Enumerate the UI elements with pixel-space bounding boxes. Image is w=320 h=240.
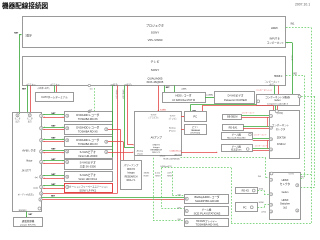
box BluRay recorder SHARP BD-HD100 — [185, 195, 229, 204]
box PC — [185, 112, 207, 122]
svg-text:SHARP BD-HD100: SHARP BD-HD100 — [195, 199, 219, 203]
svg-text:RDC-7.1: RDC-7.1 — [152, 152, 161, 154]
svg-text:(D4): (D4) — [177, 219, 181, 221]
wire dashed HDMI vertical to PS3 — [160, 168, 163, 209]
svg-text:NET: NET — [51, 125, 56, 127]
wire RD-EA1 to selector — [243, 125, 269, 128]
wire Xbox360 to selector — [253, 137, 270, 140]
selector port circle 5 — [40, 160, 43, 163]
box device RD-X5 — [65, 125, 113, 135]
wire component projector green down to Gefen DA — [287, 42, 288, 43]
device RD-X3 port circle — [66, 139, 69, 142]
wire dashed HDMI vertical to HD-XA1 — [152, 158, 155, 221]
svg-text:OUT1: OUT1 — [289, 174, 295, 176]
selector input circle 3 — [270, 138, 273, 141]
wire Gefen to PC (green) — [191, 103, 257, 106]
wire antenna dashed TV to RD-X6 — [93, 88, 96, 112]
device SV-S300 port circle — [66, 161, 69, 164]
device LF-PK1 port circle — [66, 186, 69, 189]
wire RD-SB1M to selector — [242, 114, 270, 117]
box projector SONY VPL-VW60 — [23, 17, 286, 48]
svg-text:(D4): (D4) — [177, 195, 181, 197]
box device SV-S300 — [65, 160, 113, 170]
svg-text:IN1: IN1 — [291, 23, 295, 26]
wire S-video2 TV down to AV amp (red) — [126, 86, 129, 146]
wire S2 video+audio TV to AV amp (red) — [157, 86, 160, 112]
svg-text:(i.LINK): (i.LINK) — [207, 94, 214, 96]
selector port circle 6 — [40, 175, 43, 178]
wire green vertical from projector to selector monitor-out — [18, 35, 21, 114]
svg-text:(5.1ch): (5.1ch) — [155, 173, 161, 175]
wire pair NET selector to device 7 — [43, 184, 65, 187]
box game Nintendo Wii — [222, 145, 253, 152]
device RD-X5 port circle — [66, 127, 69, 130]
wire dashed vertical VA — [303, 76, 306, 179]
wire PC to switcher dashed — [258, 206, 265, 209]
svg-text:NET: NET — [51, 184, 56, 186]
wire VC to switcher out — [301, 186, 316, 189]
wire RD-X5 to switcher dashed — [258, 189, 265, 192]
svg-text:RD-X5: RD-X5 — [242, 190, 250, 193]
svg-text:NET: NET — [51, 174, 56, 176]
RD-X5 right port circle — [105, 128, 108, 131]
switcher circle in3 — [270, 203, 273, 206]
wire switcher right to VA — [301, 177, 305, 180]
svg-text:HDMI: HDMI — [259, 202, 264, 204]
svg-text:Gefen: Gefen — [274, 100, 281, 102]
box D-VHS video Panasonic NV-DHE20 — [215, 92, 255, 104]
switcher circle out right 2 — [296, 209, 299, 212]
svg-text:2007.10.1: 2007.10.1 — [295, 3, 310, 7]
device HR-20000 port circle — [66, 150, 69, 153]
wire Wii to selector — [253, 147, 270, 150]
svg-text:NET: NET — [51, 137, 56, 139]
svg-text:Panasonic NV-DHE20: Panasonic NV-DHE20 — [224, 100, 248, 102]
svg-text:SONY: SONY — [151, 31, 160, 35]
wire pair NET selector to device 3 — [43, 138, 65, 141]
switcher circle out right 1 — [296, 184, 299, 187]
Gefen left edge circle — [257, 100, 260, 103]
selector port circle 3 — [40, 139, 43, 142]
selector input circle 2 — [270, 126, 273, 129]
selector port circle 9 — [39, 198, 42, 201]
svg-text:NET: NET — [51, 149, 56, 151]
svg-text:VPL-VW60: VPL-VW60 — [148, 38, 163, 42]
wire AV amp to power amp (gray) — [133, 155, 136, 160]
selector port circle 8 — [40, 192, 43, 195]
wire iLINK TV to RecPOT — [173, 86, 176, 93]
svg-text:TOSHIBA HD-XA1: TOSHIBA HD-XA1 — [195, 223, 219, 227]
svg-text:BB-5B1M: BB-5B1M — [227, 116, 237, 119]
switcher circle top-left — [270, 172, 273, 175]
svg-text:NET: NET — [51, 113, 56, 115]
wire S-video1 TV down (green) — [111, 86, 114, 158]
svg-text:ONKYO: ONKYO — [152, 145, 160, 147]
box device LF-PK1 — [65, 184, 113, 193]
wire S-video2 TV down to AV amp (green) — [123, 86, 126, 148]
wire dashed vertical right bus VB — [310, 28, 313, 224]
selector port circle 4 — [40, 150, 43, 153]
svg-text:(Piano): (Piano) — [169, 131, 176, 133]
wire pair NET selector to device 1 — [43, 113, 65, 116]
box device RD-X3 — [65, 137, 113, 147]
svg-text:(YDP223): (YDP223) — [190, 133, 200, 135]
box TV SONY QUALIA005 — [23, 57, 286, 86]
box game Xbox360 — [222, 133, 253, 140]
antenna circle top — [88, 84, 90, 86]
wire NET TV to RecPOT — [163, 86, 166, 93]
svg-text:NET: NET — [51, 159, 56, 161]
svg-text:(D4): (D4) — [177, 207, 181, 209]
box device RD-X6 — [65, 112, 113, 122]
wire dashed vertical VC — [313, 97, 316, 188]
wire switcher OUT1 to right bus — [301, 173, 312, 176]
wire analog feed to AV amp (red) — [108, 151, 133, 154]
svg-text:RS232C: RS232C — [19, 210, 27, 212]
RD-X3 right port circle — [105, 140, 108, 143]
box piano YAMAHA — [185, 125, 207, 135]
svg-text:SONY: SONY — [151, 68, 160, 72]
wire red chain selector inputs a — [266, 117, 269, 127]
box RD-X5 HDMI — [236, 188, 258, 194]
box PC bottom — [236, 203, 258, 212]
box power controller prosper SVCTRL — [14, 218, 43, 227]
wire dashed bottom bus — [231, 222, 311, 225]
device HR-VFG1 port circle — [66, 175, 69, 178]
box power amp Integra RESEARCH RDA-7.1 — [121, 161, 142, 190]
antenna circle bottom — [88, 110, 90, 112]
box CATV home terminal — [36, 93, 74, 102]
monitor out circle 2 — [28, 114, 31, 117]
wire Gefen to component selector (red) — [276, 106, 279, 111]
svg-text:i.LINK: i.LINK — [181, 88, 187, 90]
box AV amp ONKYO Integra RDC-7.1 — [135, 112, 182, 156]
svg-text:Victor: Victor — [26, 160, 33, 163]
wire pair NET selector to device 2 — [43, 126, 65, 129]
switcher circle in2 — [270, 193, 273, 196]
svg-text:SCE PLAYSTATION3: SCE PLAYSTATION3 — [194, 211, 221, 215]
wire S-video1 TV down (red bus back to selector) — [116, 86, 119, 194]
svg-text:KDX-46Q005: KDX-46Q005 — [147, 80, 164, 84]
svg-text:ONKYO: ONKYO — [127, 169, 136, 171]
wire component TV to Gefen DA (green) — [273, 86, 276, 95]
box component distributor Gefen DA — [257, 95, 300, 106]
svg-text:(in): (in) — [35, 177, 38, 179]
wire Gefen to component selector (green) — [274, 106, 277, 111]
box device HR-20000 — [65, 150, 113, 159]
selector port circle 2 — [40, 127, 43, 130]
selector input circle 1 — [270, 115, 273, 118]
box AV selector Victor JX-S777 — [13, 113, 42, 212]
box HDMI switcher Gefen — [270, 173, 301, 220]
switcher circle in1 — [270, 178, 273, 181]
wire pair video1 TV to selector — [26, 86, 29, 114]
box component selector — [270, 111, 300, 159]
wire pair NET selector to device 5 — [43, 159, 65, 162]
svg-text:ZEKT08: ZEKT08 — [277, 137, 286, 140]
wire component TV to Gefen DA (red) — [277, 86, 280, 95]
wire dashed HDMI horizontal y167 — [162, 166, 232, 169]
svg-text:(DVI): (DVI) — [262, 211, 267, 213]
svg-text:(7spk): (7spk) — [137, 153, 143, 155]
svg-text:(HDMI): (HDMI) — [144, 173, 150, 175]
box RD-SB1M — [223, 115, 242, 120]
box HD DVD player TOSHIBA HD-XA1 — [185, 219, 229, 227]
Gefen right edge circle — [298, 95, 301, 98]
wire RD-X5 to power amp (red) — [108, 128, 120, 131]
wire pair NET selector to device 6 — [43, 174, 65, 177]
wire dashed vertical x231 — [230, 168, 233, 224]
svg-text:ICS94.2: ICS94.2 — [277, 143, 286, 146]
selector input circle top — [275, 110, 278, 113]
wire long red selector to BD-HD100 — [42, 198, 184, 201]
svg-text:INPUT B: INPUT B — [270, 37, 280, 40]
wire Gefen DA out3 dashed right — [301, 95, 315, 98]
wire red chain selector inputs b — [266, 140, 269, 148]
wire component selector feed (red) — [202, 104, 274, 107]
device RD-X6 port circle — [66, 114, 69, 117]
selector input circle 4 — [270, 148, 273, 151]
svg-text:JX-S777: JX-S777 — [21, 170, 31, 173]
wire pair video2 TV to CATV terminal — [53, 86, 56, 93]
svg-text:3x2: 3x2 — [283, 207, 288, 210]
svg-text:RD-EA1: RD-EA1 — [229, 127, 238, 130]
svg-text:(DVI): (DVI) — [168, 173, 172, 175]
svg-text:I-O DATA Rec-POT M: I-O DATA Rec-POT M — [172, 99, 195, 102]
selector port circle 1 — [40, 114, 43, 117]
wire pair NET selector to device 4 — [43, 149, 65, 152]
switcher circle in4 — [270, 210, 273, 213]
svg-text:IN4: IN4 — [258, 176, 261, 178]
wire AV amp to PC (red) — [181, 115, 185, 118]
HR-20000 right port circle — [105, 151, 108, 154]
wire long green selector to BD-HD100 — [42, 196, 184, 199]
wire selector to power controller NET — [25, 212, 28, 218]
wire HDMI out AV amp dashed — [181, 156, 266, 159]
wire RD-X3 to power amp (red) — [108, 140, 123, 143]
svg-text:IN5: IN5 — [301, 176, 304, 178]
svg-text:Gefen: Gefen — [282, 191, 289, 194]
monitor out circle 1 — [16, 114, 19, 117]
box device HR-VFG1 — [65, 172, 113, 182]
wire dashed HDMI vertical to BD-HD100 — [171, 171, 174, 196]
selector port circle 7 — [40, 185, 43, 188]
box HDD recorder I-O DATA Rec-POT M — [163, 93, 206, 103]
box game PS3 — [185, 207, 229, 216]
box RD-EA1 — [223, 125, 244, 131]
wire coax digital out red — [181, 151, 217, 154]
